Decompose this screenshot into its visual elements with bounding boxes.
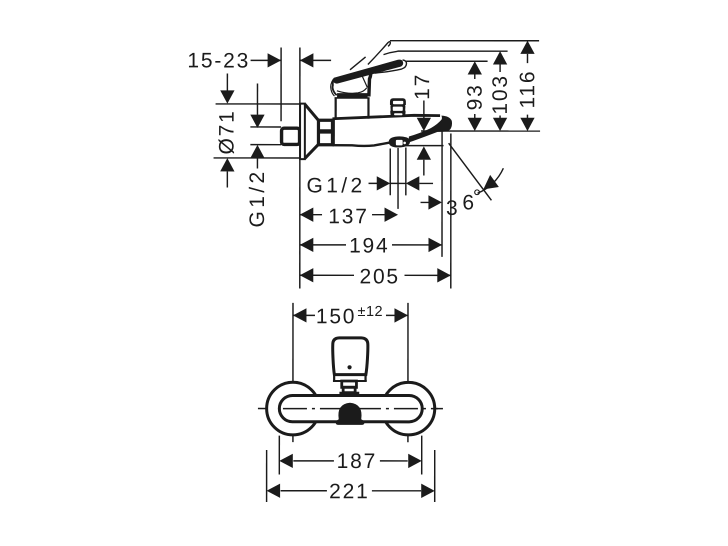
extension line spout-max x450.8 bbox=[450, 134, 452, 289]
handle screw bbox=[347, 365, 351, 369]
dimension 36 deg arc bbox=[478, 168, 504, 193]
dimension G1/2 mid ext line right bbox=[405, 148, 407, 196]
svg-text:93: 93 bbox=[464, 83, 487, 110]
dimension 150 line bbox=[293, 314, 315, 316]
handle front bbox=[333, 338, 368, 375]
right escutcheon circle bbox=[382, 382, 435, 435]
escutcheon back plate bbox=[300, 104, 305, 160]
right dims top ext line 103 bbox=[397, 50, 507, 52]
aerator mouth line bbox=[405, 145, 444, 147]
neck below handle bbox=[333, 375, 335, 381]
extension line spout-tip x442 bbox=[441, 130, 443, 256]
dimension 205 bbox=[300, 274, 354, 276]
centerline horizontal dash-dot bbox=[258, 408, 443, 410]
svg-text:103: 103 bbox=[489, 74, 512, 114]
lever blade tip outline bbox=[375, 60, 407, 73]
body tube bottom edge bbox=[332, 143, 389, 146]
body tube left edge bbox=[331, 119, 335, 145]
svg-text:17: 17 bbox=[411, 73, 434, 100]
dimension 15-23 arrow right bbox=[300, 53, 314, 67]
svg-text:205: 205 bbox=[359, 265, 399, 288]
svg-text:Ø71: Ø71 bbox=[216, 109, 239, 154]
outlet center line bbox=[397, 148, 399, 209]
handle base bottom shadow bbox=[337, 93, 368, 97]
wall pipe stub bbox=[282, 128, 300, 144]
extension line wall-surface x300 bbox=[299, 47, 301, 288]
dimension O71 bottom arrow bbox=[220, 158, 234, 171]
dimension G1/2 left up arrow bbox=[250, 145, 264, 158]
body capsule bbox=[279, 395, 422, 421]
dimension 15-23 line right bbox=[300, 59, 331, 61]
dimension 15-23 arrow left bbox=[268, 53, 282, 67]
handle base left edge bbox=[333, 79, 337, 96]
right dims bottom ref line bbox=[421, 130, 540, 132]
svg-text:3: 3 bbox=[446, 197, 459, 220]
spout tip and underside band bbox=[409, 116, 452, 143]
svg-text:150: 150 bbox=[316, 305, 356, 328]
dimension 15-23 line left bbox=[251, 59, 282, 61]
dimension 36 deg arrow at vertical bbox=[421, 201, 429, 203]
dimension 116 bbox=[520, 41, 534, 54]
dimension G1/2 left down arrow bbox=[256, 83, 258, 114]
dimension 36 deg diagonal bbox=[449, 143, 492, 200]
right dims top ext line 93 bbox=[406, 60, 488, 62]
dimension 194 bbox=[300, 244, 346, 246]
svg-text:15-23: 15-23 bbox=[187, 49, 250, 72]
right dims top ext line 116 bbox=[390, 40, 539, 42]
dimension 150 ext line left bbox=[292, 303, 294, 442]
svg-text:187: 187 bbox=[337, 450, 377, 473]
lever top wing bbox=[350, 57, 366, 70]
dimension 137 bbox=[300, 214, 322, 216]
svg-text:194: 194 bbox=[349, 234, 389, 257]
dimension 221 line bbox=[281, 490, 327, 492]
dimension 187 ext lines bbox=[278, 436, 280, 475]
escutcheon cone top edge bbox=[305, 104, 319, 120]
escutcheon cone bottom edge bbox=[305, 144, 319, 158]
dimension 150 ext line right bbox=[407, 303, 409, 442]
handle base right neck bbox=[369, 69, 371, 97]
svg-text:116: 116 bbox=[516, 70, 539, 109]
extension line wall-left x281 bbox=[280, 47, 282, 121]
dimension O71 bottom ext line bbox=[214, 157, 300, 159]
svg-text:G1/2: G1/2 bbox=[246, 168, 269, 227]
centerline redraw over capsule bbox=[283, 408, 443, 410]
left escutcheon circle bbox=[267, 382, 320, 435]
handle base inner lines bbox=[361, 72, 368, 87]
center outlet blob bbox=[336, 403, 365, 425]
svg-text:137: 137 bbox=[328, 205, 368, 228]
dimension G1/2 mid ext line left bbox=[389, 149, 391, 196]
diverter knob bbox=[390, 98, 406, 116]
dimension 17 bbox=[423, 101, 425, 119]
svg-text:°: ° bbox=[473, 186, 483, 209]
cartridge column bbox=[335, 98, 337, 119]
dimension O71 top arrow bbox=[226, 73, 228, 91]
dimension 93 bbox=[468, 61, 482, 74]
dimension O71 top ext line bbox=[216, 103, 300, 105]
aerator bbox=[389, 136, 410, 147]
dimension G1/2 mid line bbox=[369, 182, 378, 184]
lever blade bbox=[333, 60, 403, 84]
dimension 103 bbox=[493, 51, 507, 64]
union nut bbox=[318, 120, 332, 145]
dimension 221 ext lines bbox=[266, 450, 268, 502]
dimension 36 deg arrow at diagonal bbox=[483, 175, 499, 189]
body tube top edge bbox=[332, 115, 440, 119]
dimension G1/2 left top ext line bbox=[250, 126, 281, 128]
dimension G1/2 left bottom ext line bbox=[250, 144, 281, 146]
svg-text:221: 221 bbox=[329, 480, 369, 503]
svg-text:±12: ±12 bbox=[357, 304, 383, 320]
dimension 187 line bbox=[293, 460, 334, 462]
svg-text:G1/2: G1/2 bbox=[306, 174, 365, 197]
